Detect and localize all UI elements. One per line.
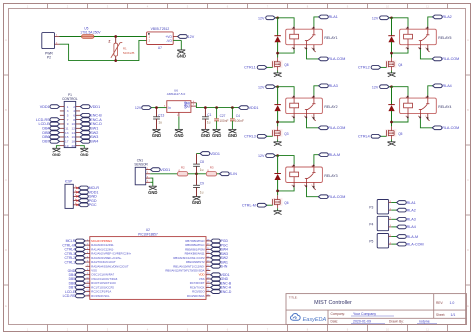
pin numbers U2: [86, 239, 210, 296]
capacitor C1 1u: [204, 108, 206, 117]
svg-text:5: 5: [311, 47, 312, 49]
pin P4 2: [389, 218, 392, 220]
net flag DB5 (U2 pin 10): [76, 277, 86, 281]
net flag RLA3 (P4): [397, 217, 407, 221]
svg-text:E: E: [467, 304, 469, 308]
pin P3 1: [389, 209, 392, 211]
wire U6 output rail: [196, 103, 238, 108]
wire P5 pin 2 to flag: [391, 236, 396, 238]
svg-text:3: 3: [418, 116, 419, 118]
ground GND (C13): [153, 129, 161, 133]
svg-text:RLA-M: RLA-M: [407, 235, 418, 239]
net flag GND (U2 pin 8): [76, 269, 86, 273]
node C13 junction: [155, 106, 158, 109]
net flag VDD1 (U6 output): [239, 106, 249, 110]
node drain junction (RELAY2): [276, 121, 279, 124]
svg-text:GND: GND: [192, 200, 201, 205]
svg-text:3: 3: [304, 185, 305, 187]
ground (RELAY3): [274, 211, 282, 215]
net flag DB7 (U2 pin 12): [76, 286, 86, 290]
net flag VDD1 (C8 top): [200, 152, 210, 156]
wire coil return to rail (RELAY1): [278, 50, 295, 54]
pin P3 2: [389, 202, 392, 204]
fuse U5 1T01.5A 250V: [82, 35, 95, 39]
net flag LCD-RS (U2 pin 14): [76, 294, 86, 298]
svg-text:Drawn By:: Drawn By:: [389, 320, 404, 324]
pin names U2: [91, 239, 205, 298]
svg-text:LCD-RS: LCD-RS: [63, 294, 76, 298]
pin P4 1: [389, 226, 392, 228]
svg-text:C9: C9: [200, 181, 204, 185]
svg-text:RLA-COM: RLA-COM: [442, 57, 459, 61]
relay switch (RELAY3): [306, 178, 308, 182]
wire COM to RLA2-COM flag (RELAY5): [420, 50, 432, 59]
title block: [286, 294, 467, 325]
pin P5 2: [389, 236, 392, 238]
svg-text:In: In: [168, 106, 171, 110]
svg-text:RELAY3: RELAY3: [324, 174, 337, 178]
svg-text:Date:: Date:: [331, 320, 339, 324]
wire 12V to U6 In: [151, 107, 166, 109]
net flag DB4 (U2 pin 9): [76, 273, 86, 277]
wire 12V rail to coil (RELAY1): [278, 18, 295, 27]
svg-text:2: 2: [292, 47, 293, 49]
svg-text:VDD1: VDD1: [210, 152, 220, 156]
svg-text:B: B: [467, 108, 469, 112]
svg-text:Q4: Q4: [398, 63, 402, 67]
net flag RLA2: [433, 15, 443, 19]
wire U6 GND pin down: [178, 117, 180, 130]
svg-text:3: 3: [304, 116, 305, 118]
net flag SW1 (P1 pin 12): [80, 126, 90, 130]
wire COM to RLA4-COM flag (RELAY4): [420, 119, 432, 128]
net flag DB4 (P1 pin 11): [50, 126, 60, 130]
svg-text:1u: 1u: [158, 121, 162, 125]
net flag ENC-D (P1 pin 10): [80, 122, 90, 126]
svg-text:R3: R3: [210, 166, 214, 170]
wire COM to RLA3-COM flag (RELAY2): [307, 119, 319, 128]
wire 12V flag to rail (RELAY4): [389, 86, 391, 88]
wire node to R3: [197, 173, 207, 175]
EasyEDA logo: [290, 314, 300, 321]
svg-text:TITLE:: TITLE:: [289, 295, 298, 299]
wire 12V rail to coil (RELAY4): [392, 87, 409, 96]
svg-text:C: C: [5, 178, 7, 182]
svg-text:P2: P2: [47, 56, 51, 60]
svg-text:RLA-M: RLA-M: [329, 153, 340, 157]
net flag RLA4 (P4): [397, 225, 407, 229]
net flag RLA3: [319, 84, 329, 88]
net flag SW2 (U2 pin 24): [211, 256, 221, 260]
svg-text:5: 5: [425, 47, 426, 49]
pin U6 Out: [191, 105, 197, 107]
wire 12V flag to rail (RELAY2): [275, 86, 277, 88]
wire coil return to rail (RELAY3): [278, 187, 295, 191]
svg-text:RELAY4: RELAY4: [438, 105, 451, 109]
net flag VDD1 (P1 pin 1): [50, 105, 60, 109]
varistor R1 520K2/B: [115, 37, 117, 44]
capacitor C27 100nF: [216, 108, 218, 119]
svg-text:A: A: [467, 38, 469, 42]
node 12V rail junction (RELAY3): [276, 154, 279, 157]
svg-text:RLA-COM: RLA-COM: [328, 195, 345, 199]
svg-text:B: B: [5, 108, 7, 112]
svg-text:RELAY2: RELAY2: [324, 105, 337, 109]
svg-text:1T01.5A 250V: 1T01.5A 250V: [80, 30, 101, 34]
net flag SW1 (U2 pin 23): [211, 260, 221, 264]
wire 12V flag to rail (RELAY3): [275, 155, 277, 157]
wire P1 pin19 to ground: [56, 146, 60, 149]
relay RELAY4: [400, 98, 437, 114]
svg-text:GND: GND: [174, 133, 183, 138]
node C4 junction: [231, 106, 234, 109]
node drain junction (RELAY4): [390, 121, 393, 124]
svg-text:RC3/SCK/SCL: RC3/SCK/SCL: [91, 294, 110, 298]
svg-text:-VO: -VO: [166, 39, 172, 43]
net flag S-IN (U2 pin 22): [211, 264, 221, 268]
svg-text:4: 4: [311, 28, 312, 30]
capacitor C4 100nF: [231, 108, 233, 119]
node fuse/varistor junction: [114, 35, 117, 38]
wire coil return to rail (RELAY4): [392, 119, 409, 123]
net flag VDD1 (U2 pin 20): [211, 273, 221, 277]
wire source to ground (RELAY1): [277, 71, 279, 73]
svg-text:2020-01-09: 2020-01-09: [353, 320, 371, 324]
ground GND (C4): [228, 129, 236, 133]
wire 12V flag to rail (RELAY1): [275, 17, 277, 19]
pin ICSP 4: [73, 200, 78, 202]
svg-text:12V: 12V: [188, 35, 195, 39]
svg-text:Q3: Q3: [284, 132, 288, 136]
svg-text:VDD1: VDD1: [249, 106, 259, 110]
wire gate (RELAY5): [381, 66, 387, 68]
wire P3 pin 2 to flag: [391, 202, 396, 204]
pins relay stubs (RELAY1): [294, 27, 316, 52]
svg-text:100nF: 100nF: [219, 119, 228, 123]
net flag SW2 (P1 pin 14): [80, 131, 90, 135]
svg-text:D: D: [467, 248, 469, 252]
net flag RLA4: [433, 84, 443, 88]
wire CN1 pins 3,4 to ground: [150, 178, 153, 186]
wire P4 pin 1 to flag: [391, 226, 396, 228]
svg-text:EasyEDA: EasyEDA: [303, 317, 327, 323]
svg-text:A: A: [5, 38, 7, 42]
pin U6 TAB: [191, 102, 197, 104]
ground (RELAY2): [274, 142, 282, 146]
net flag ENC-B (U2 pin 18): [211, 281, 221, 285]
svg-text:Q6: Q6: [284, 201, 288, 205]
svg-text:1/1: 1/1: [451, 313, 456, 317]
net flag RLA2 (P3): [397, 208, 407, 212]
node sensor divider junction: [195, 172, 198, 175]
net flag DB5 (P1 pin 13): [50, 131, 60, 135]
net flag ENC-A (U2 pin 17): [211, 286, 221, 290]
net flag RLA-COM (RELAY4): [432, 126, 442, 130]
net flag DB6 (P1 pin 15): [50, 135, 60, 139]
ground GND (CN1): [149, 186, 157, 190]
net flag GND (U2 pin 19): [211, 277, 221, 281]
wire P2 pin1 to fuse: [60, 36, 82, 38]
wire RLA-M flag to NO contact (RELAY3): [314, 155, 319, 165]
svg-text:4: 4: [311, 166, 312, 168]
net flag RLA-COM (RELAY3): [318, 195, 328, 199]
svg-text:RA5/AN4/SS/HLVDIN/C2OUT: RA5/AN4/SS/HLVDIN/C2OUT: [91, 264, 129, 268]
svg-text:1u: 1u: [200, 168, 204, 172]
svg-text:P3: P3: [369, 206, 373, 210]
svg-text:RLA-COM: RLA-COM: [442, 126, 459, 130]
relay RELAY2: [286, 98, 323, 114]
node C27 junction: [215, 106, 218, 109]
net flag SW3 (P1 pin 16): [80, 135, 90, 139]
connector P2 PWR: [42, 33, 55, 49]
svg-text:2: 2: [292, 116, 293, 118]
svg-text:C8: C8: [200, 160, 204, 164]
svg-text:C27: C27: [220, 114, 226, 118]
relay RELAY1: [286, 29, 323, 45]
svg-text:Sheet:: Sheet:: [436, 313, 445, 317]
svg-text:rodyne: rodyne: [419, 320, 430, 324]
svg-text:REV:: REV:: [436, 301, 443, 305]
net flag CTRL2 (U2 pin 5): [76, 256, 86, 260]
net flag CTRL3 (U2 pin 4): [76, 252, 86, 256]
svg-text:3: 3: [304, 47, 305, 49]
net flag ENC-D (U2 pin 16): [211, 290, 221, 294]
wire RLA1 flag to NO contact (RELAY1): [314, 17, 319, 27]
svg-text:GND: GND: [52, 153, 61, 157]
svg-text:VB05-T2512: VB05-T2512: [151, 27, 170, 31]
wire CN1 pin2 to R2: [150, 173, 177, 175]
net flag PGC (U2 pin 27): [211, 243, 221, 247]
wire RLA3 flag to NO contact (RELAY2): [314, 86, 319, 96]
svg-text:Company:: Company:: [331, 312, 346, 316]
svg-text:VDD1: VDD1: [90, 105, 100, 109]
ground GND (U7 output): [177, 50, 185, 54]
svg-text:20: 20: [72, 144, 76, 148]
capacitor C8 1u: [196, 166, 198, 174]
net flag VDD1 (P1 pin 2): [80, 105, 90, 109]
svg-text:100nF: 100nF: [235, 119, 244, 123]
node varistor bottom junction: [114, 59, 117, 62]
net flag SW3 (U2 pin 25): [211, 252, 221, 256]
pin ICSP 2: [73, 191, 78, 193]
relay coil (RELAY5): [404, 34, 413, 39]
node drain junction (RELAY1): [276, 52, 279, 55]
capacitor C9 1u: [196, 174, 198, 186]
svg-text:GND: GND: [201, 133, 210, 138]
svg-text:2: 2: [405, 116, 406, 118]
svg-text:GND: GND: [228, 133, 237, 138]
net flag GND (ICSP): [79, 195, 89, 199]
svg-text:1u: 1u: [200, 191, 204, 195]
wire P3 pin 1 to flag: [391, 209, 396, 211]
svg-text:RLA1: RLA1: [329, 15, 338, 19]
svg-text:1: 1: [292, 28, 293, 30]
resistor R3 0: [206, 172, 216, 176]
diode D (RELAY1) flyback: [277, 18, 279, 36]
net flag PGD (U2 pin 28): [211, 239, 221, 243]
net flag CTRL4 (U2 pin 3): [76, 248, 86, 252]
capacitor C13 1u: [156, 108, 158, 117]
relay RELAY3: [286, 167, 323, 183]
net flag VDD1 (CN1 pin1): [150, 168, 160, 172]
svg-text:C1: C1: [207, 113, 211, 117]
svg-text:Q8: Q8: [284, 63, 288, 67]
pin ICSP 5: [73, 204, 78, 206]
node 12V rail junction (RELAY2): [276, 85, 279, 88]
svg-text:U7: U7: [158, 46, 162, 50]
wire source to ground (RELAY2): [277, 139, 279, 141]
wire 12V rail to coil (RELAY2): [278, 87, 295, 96]
svg-text:S-IN: S-IN: [221, 265, 228, 269]
relay coil (RELAY4): [404, 103, 413, 108]
wire fuse to U7 pin1: [94, 36, 147, 38]
wire COM to RLA1-COM flag (RELAY1): [307, 50, 319, 59]
wire coil return to rail (RELAY2): [278, 119, 295, 123]
net flag RLA1 (P3): [397, 201, 407, 205]
svg-text:Out: Out: [185, 105, 190, 109]
ground GND (P1 left): [52, 148, 60, 152]
svg-text:Z: Z: [108, 40, 110, 44]
wire P5 pin 1 to flag: [391, 243, 396, 245]
net flag SW4 (U2 pin 26): [211, 248, 221, 252]
svg-text:CTRL1: CTRL1: [64, 260, 75, 264]
diode D (RELAY3) flyback: [277, 156, 279, 174]
wire RLA2 flag to NO contact (RELAY5): [428, 17, 433, 27]
resistor R2 0: [178, 172, 188, 176]
ground GND (U6): [175, 129, 183, 133]
svg-text:GND: GND: [80, 153, 89, 157]
relay RELAY5: [400, 29, 437, 45]
svg-text:SW4: SW4: [90, 140, 98, 144]
svg-text:2: 2: [405, 47, 406, 49]
net flag ENC-A (P1 pin 8): [80, 118, 90, 122]
svg-text:RC4/SDI/SDA: RC4/SDI/SDA: [187, 294, 205, 298]
net flag DB6 (U2 pin 11): [76, 281, 86, 285]
svg-text:RLA3: RLA3: [329, 84, 338, 88]
svg-text:1.0: 1.0: [450, 301, 455, 305]
pins U2 stubs: [86, 241, 211, 296]
transistor Q3 NMOS: [272, 129, 283, 137]
net flag MCLR (U2 pin 1): [76, 239, 86, 243]
net flag VDD1 (ICSP): [79, 190, 89, 194]
pin CN1 1: [146, 169, 151, 171]
svg-text:12V: 12V: [258, 85, 265, 89]
svg-text:12V: 12V: [258, 16, 265, 20]
svg-text:1: 1: [292, 97, 293, 99]
svg-text:D: D: [5, 248, 7, 252]
wire RLA4 flag to NO contact (RELAY4): [428, 86, 433, 96]
wire 12V flag to rail (RELAY5): [389, 17, 391, 19]
transistor Q4 NMOS: [385, 60, 396, 68]
svg-text:4: 4: [311, 97, 312, 99]
svg-text:4: 4: [425, 97, 426, 99]
net flag RLA-COM (RELAY2): [318, 126, 328, 130]
svg-text:Q5: Q5: [398, 132, 402, 136]
svg-text:12V: 12V: [372, 16, 379, 20]
svg-text:C4: C4: [236, 114, 240, 118]
net flag CTRL-M (U2 pin 2): [76, 243, 86, 247]
svg-text:5: 5: [311, 185, 312, 187]
pins relay stubs (RELAY2): [294, 96, 316, 121]
svg-text:12V: 12V: [372, 85, 379, 89]
svg-text:RLA2: RLA2: [407, 208, 416, 212]
ground (RELAY1): [274, 73, 282, 77]
svg-text:2: 2: [292, 185, 293, 187]
svg-text:RLA1: RLA1: [407, 201, 416, 205]
svg-text:C13: C13: [158, 113, 164, 117]
svg-text:RLA2: RLA2: [443, 15, 452, 19]
node C1 junction: [204, 106, 207, 109]
net flag RLA-COM (P5): [397, 242, 407, 246]
wire gate (RELAY1): [267, 66, 273, 68]
net flag RLA-M: [319, 153, 329, 157]
svg-text:E: E: [5, 304, 7, 308]
svg-text:12V: 12V: [258, 154, 265, 158]
svg-text:VDD1: VDD1: [40, 105, 50, 109]
node drain junction (RELAY3): [276, 190, 279, 193]
svg-text:12V: 12V: [135, 106, 142, 110]
relay coil (RELAY2): [290, 103, 299, 108]
ground (RELAY4): [388, 142, 396, 146]
svg-text:CTRL-M: CTRL-M: [242, 203, 256, 207]
relay switch (RELAY4): [419, 110, 421, 114]
svg-text:S-IN: S-IN: [230, 172, 238, 176]
svg-text:PGC: PGC: [89, 203, 97, 207]
svg-text:RLA-COM: RLA-COM: [328, 57, 345, 61]
pin P5 1: [389, 243, 392, 245]
svg-text:GND: GND: [177, 54, 186, 59]
svg-text:VDD1: VDD1: [160, 168, 170, 172]
svg-text:RLA3: RLA3: [407, 218, 416, 222]
node 12V rail junction (RELAY4): [390, 85, 393, 88]
wire 12V rail to coil (RELAY5): [392, 18, 409, 27]
svg-text:MIST Controller: MIST Controller: [314, 300, 352, 306]
wire P2 pin2 return: [60, 40, 147, 60]
wire R2 to node: [188, 173, 197, 175]
wire 12V rail to coil (RELAY3): [278, 156, 295, 165]
net flag LCD-E (U2 pin 13): [76, 290, 86, 294]
net flag S-IN: [220, 172, 230, 176]
svg-text:SENSOR: SENSOR: [134, 163, 148, 167]
svg-text:5: 5: [425, 116, 426, 118]
ground GND (C1): [201, 129, 209, 133]
net flag DB7 (P1 pin 17): [50, 139, 60, 143]
svg-text:RLA4: RLA4: [407, 225, 416, 229]
net flag RLA1: [319, 15, 329, 19]
node 12V rail junction (RELAY1): [276, 16, 279, 19]
relay switch (RELAY5): [419, 41, 421, 45]
node drain junction (RELAY5): [390, 52, 393, 55]
svg-text:C: C: [467, 178, 469, 182]
wire C8 to VDD1 flag: [197, 153, 201, 155]
net flag LCD-E (P1 pin 9): [50, 122, 60, 126]
pin CN1 2: [146, 173, 151, 175]
svg-text:GND: GND: [148, 190, 157, 195]
transistor Q5 NMOS: [385, 129, 396, 137]
svg-text:RELAY1: RELAY1: [324, 36, 337, 40]
relay switch (RELAY1): [306, 41, 308, 45]
pin U7 +VO: [173, 36, 177, 38]
net flag CTRL1 (U2 pin 6): [76, 260, 86, 264]
net flag PGC (ICSP): [79, 203, 89, 207]
net flag RLA-COM (RELAY5): [432, 57, 442, 61]
net flag RLA-COM (RELAY1): [318, 57, 328, 61]
pin U7 -VO wire to ground: [173, 39, 181, 41]
svg-text:P4: P4: [369, 222, 373, 226]
svg-text:RELAY5: RELAY5: [438, 36, 451, 40]
wire gate (RELAY3): [267, 204, 273, 206]
svg-text:ICSP: ICSP: [65, 179, 72, 183]
